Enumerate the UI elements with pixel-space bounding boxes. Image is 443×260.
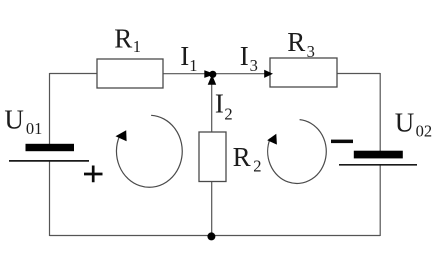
wire left vertical upper	[49, 73, 51, 145]
wire middle vertical upper	[211, 74, 213, 132]
wire left vertical lower	[49, 161, 51, 236]
wire top right horizontal	[337, 73, 380, 75]
battery U02 plate thick	[354, 151, 403, 159]
svg-text:I: I	[180, 41, 189, 71]
node A junction dot	[209, 71, 216, 78]
right mesh loop arrowhead	[267, 134, 277, 145]
svg-text:R: R	[233, 142, 251, 172]
wire right vertical upper	[379, 73, 381, 152]
plus sign of U01	[84, 166, 103, 183]
svg-text:2: 2	[224, 104, 232, 123]
left mesh loop arc	[116, 115, 182, 187]
svg-text:02: 02	[416, 122, 433, 141]
wire middle vertical lower	[211, 182, 213, 236]
svg-text:3: 3	[307, 42, 315, 61]
svg-text:2: 2	[253, 157, 261, 176]
arrow I3	[264, 70, 273, 78]
svg-text:R: R	[114, 24, 132, 54]
svg-text:I: I	[215, 89, 224, 119]
svg-text:1: 1	[133, 37, 141, 56]
wire bottom horizontal	[50, 235, 381, 237]
resistor R3	[270, 58, 337, 87]
svg-text:3: 3	[250, 56, 258, 75]
svg-text:R: R	[287, 27, 305, 57]
svg-text:01: 01	[26, 119, 43, 138]
minus sign of U02	[331, 140, 353, 144]
right mesh loop arc	[268, 120, 327, 184]
arrow I1	[204, 70, 215, 78]
node B junction dot bottom	[207, 232, 215, 240]
arrow I2	[208, 75, 217, 85]
svg-text:U: U	[395, 108, 415, 138]
wire top middle horizontal	[163, 73, 270, 75]
resistor R1	[97, 59, 163, 88]
svg-text:U: U	[4, 105, 24, 135]
battery U01 plate thick	[26, 144, 75, 151]
resistor R2	[199, 132, 226, 182]
battery U02 plate thin	[339, 164, 417, 166]
battery U01 plate thin	[9, 160, 89, 162]
wire right vertical lower	[379, 165, 381, 236]
svg-text:1: 1	[189, 56, 197, 75]
svg-text:I: I	[240, 41, 249, 71]
wire top left horizontal	[50, 73, 98, 75]
left mesh loop arrowhead	[116, 130, 127, 141]
